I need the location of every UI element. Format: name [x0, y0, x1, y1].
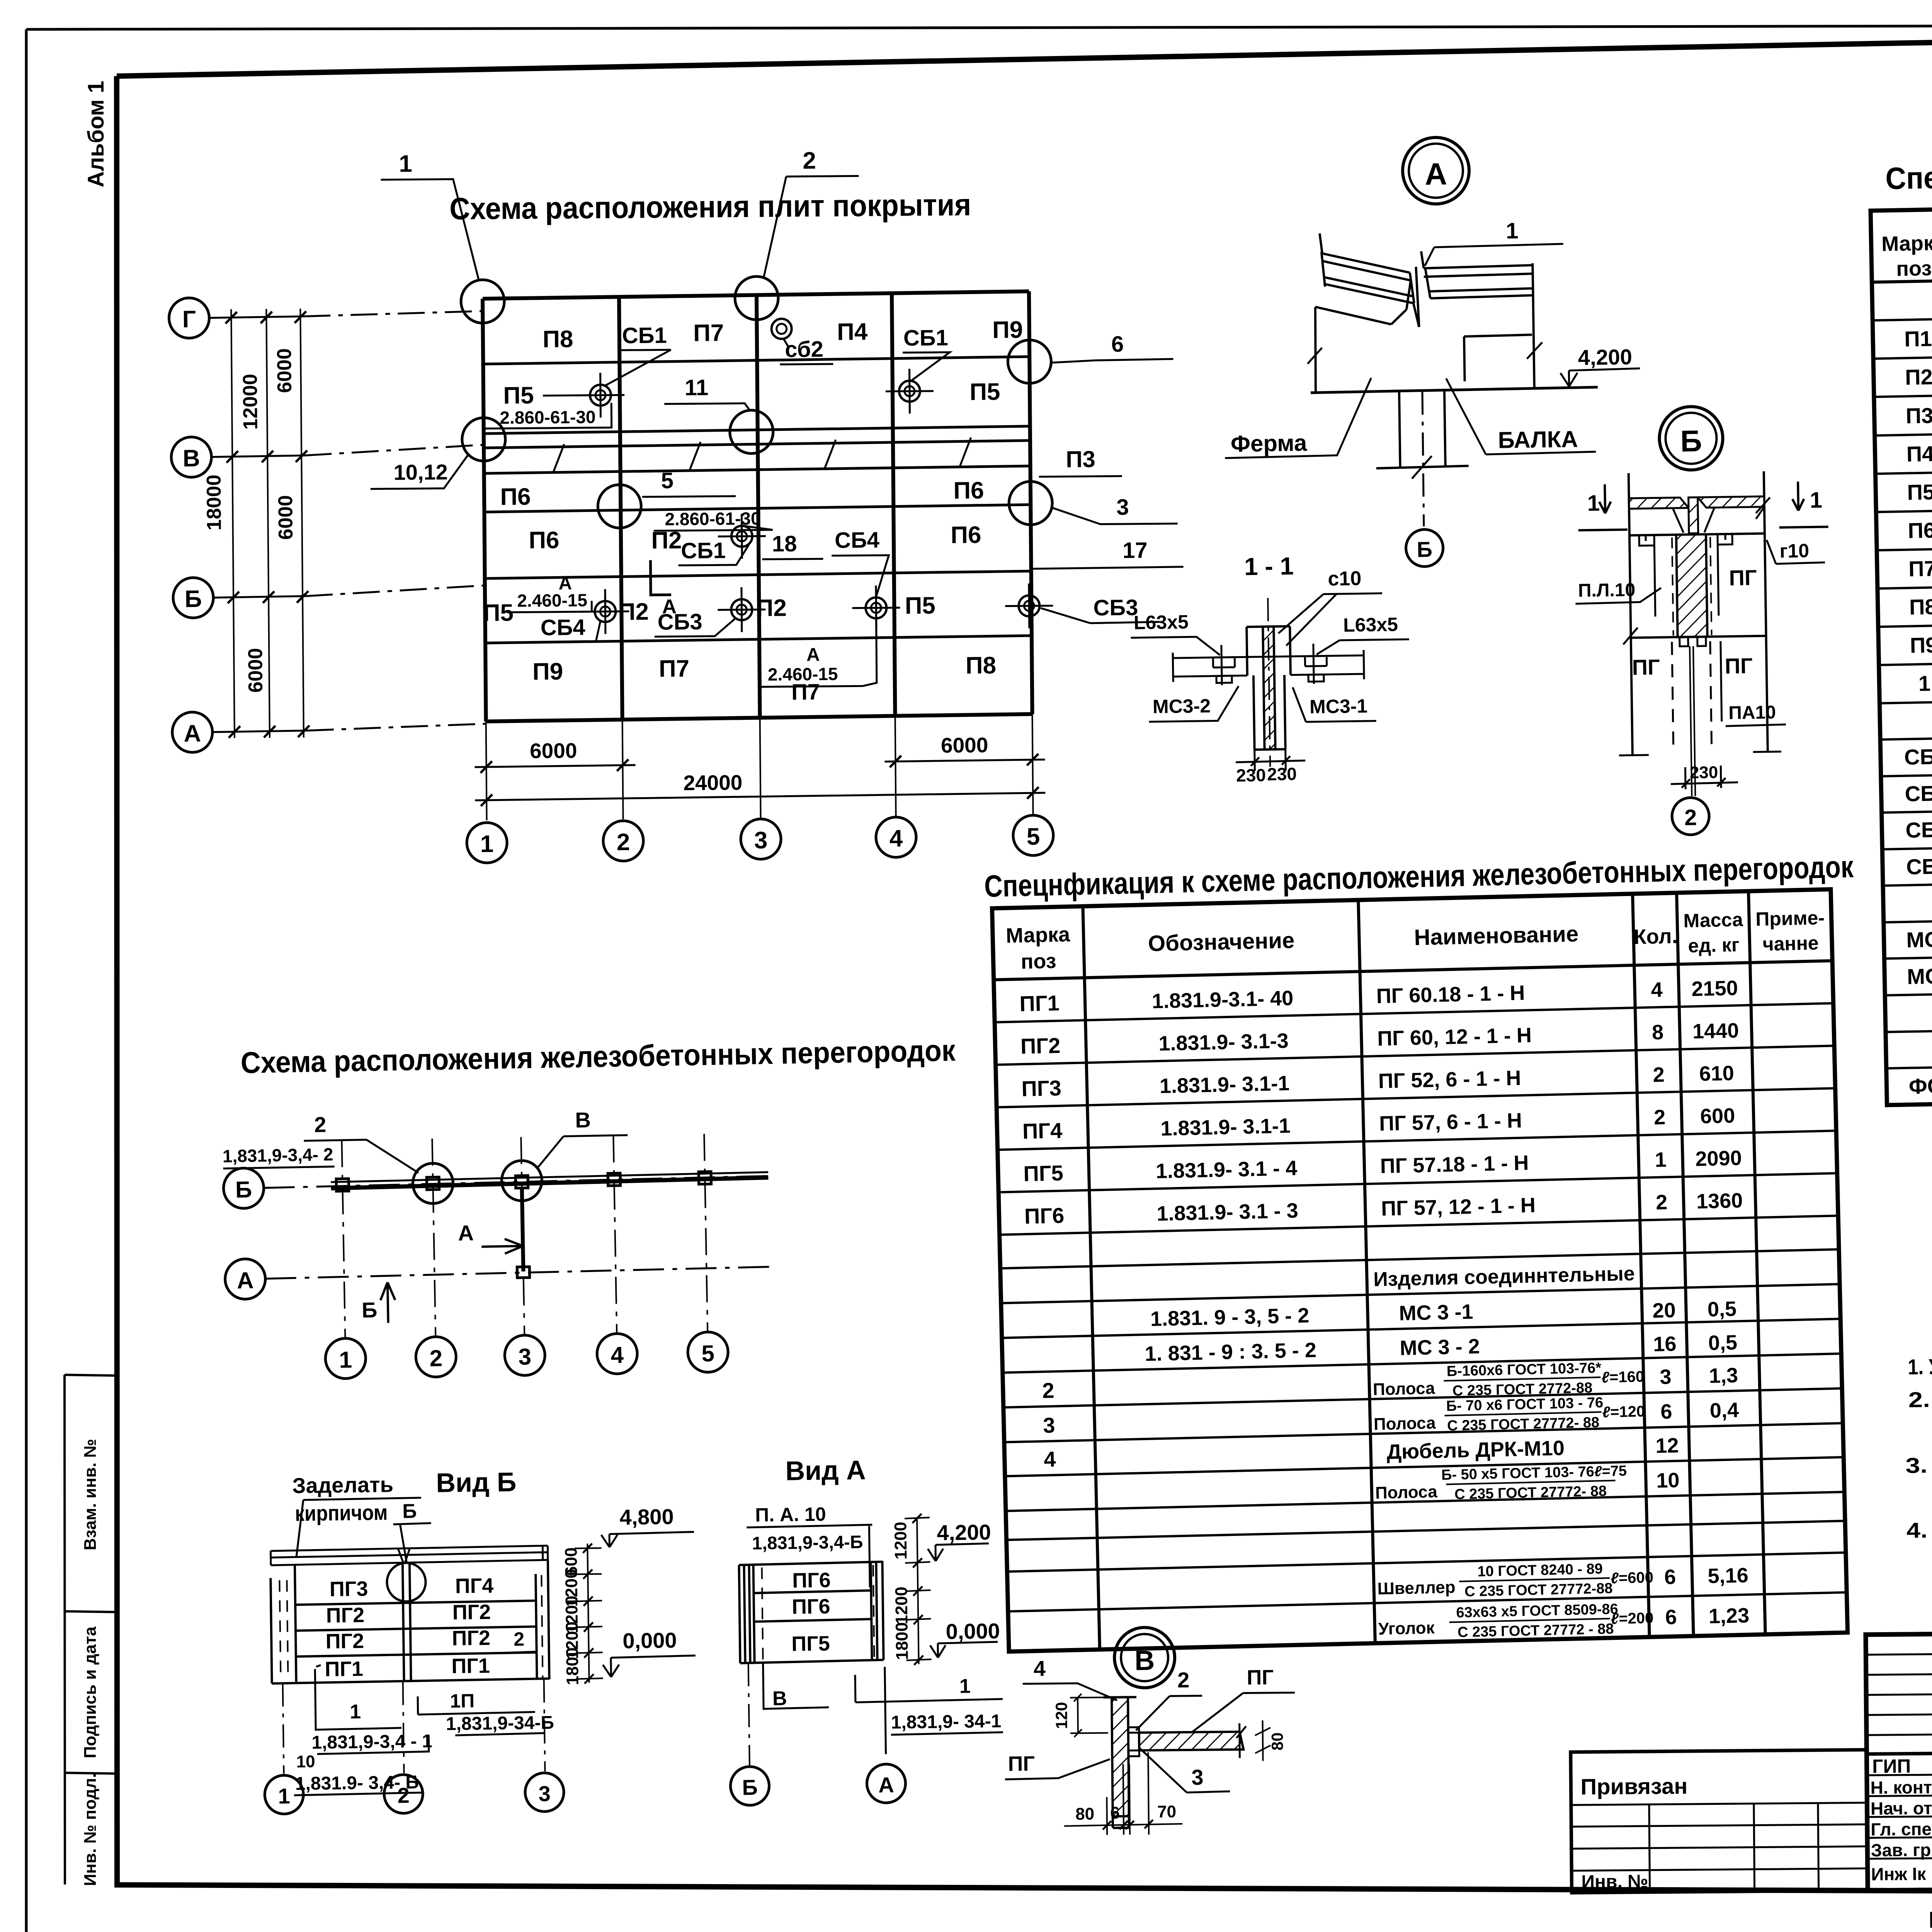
svg-text:11: 11 [685, 375, 709, 400]
svg-text:С 235 ГОСТ 27772-88: С 235 ГОСТ 27772-88 [1464, 1580, 1613, 1600]
partition wall col3 vertical [522, 1188, 524, 1272]
plan2 circle 5 [687, 1332, 728, 1372]
left support [1315, 307, 1316, 392]
section mark A center [650, 560, 671, 595]
svg-text:П9: П9 [992, 316, 1023, 344]
svg-text:3: 3 [1116, 495, 1129, 520]
svg-text:ПГ: ПГ [1008, 1752, 1035, 1776]
svg-text:4: 4 [1034, 1656, 1046, 1680]
svg-text:Б: Б [185, 586, 202, 612]
column break slash [1412, 456, 1432, 479]
column circle 3 [741, 819, 781, 859]
svg-text:ℓ=160: ℓ=160 [1601, 1368, 1645, 1386]
circle 2 ref [1672, 798, 1709, 835]
svg-text:П5: П5 [905, 592, 936, 619]
svg-text:20: 20 [1652, 1299, 1676, 1322]
svg-text:6000: 6000 [941, 733, 988, 757]
svg-text:Б: Б [1417, 537, 1432, 562]
svg-text:2: 2 [1042, 1378, 1055, 1403]
svg-text:ПГ: ПГ [1729, 565, 1757, 590]
left hook [1639, 535, 1655, 617]
svg-text:МС 3 - 2: МС 3 - 2 [1400, 1335, 1480, 1360]
svg-text:П7: П7 [693, 320, 724, 347]
svg-text:ПА10: ПА10 [1728, 702, 1776, 723]
NODEB [1573, 405, 1832, 836]
vidB right dim line [587, 1544, 589, 1683]
svg-text:3: 3 [538, 1781, 551, 1806]
VIDA [726, 1453, 1004, 1806]
svg-text:70: 70 [1157, 1802, 1176, 1821]
axis line V [211, 456, 304, 457]
table2 verticals [1083, 891, 1765, 1650]
svg-text:ℓ=600: ℓ=600 [1611, 1569, 1654, 1587]
svg-text:П5: П5 [503, 382, 534, 409]
grid columns [483, 291, 1032, 721]
right hook [1718, 534, 1733, 616]
svg-text:СБ3: СБ3 [657, 609, 702, 635]
washer P5 row right [886, 369, 934, 414]
svg-text:0,5: 0,5 [1708, 1331, 1737, 1355]
marker circle col3 top [735, 276, 779, 320]
dim 230 bottom [1670, 765, 1738, 789]
svg-text:П5: П5 [1907, 480, 1932, 504]
svg-text:0,000: 0,000 [622, 1628, 677, 1653]
svg-text:кирпичом: кирпичом [295, 1500, 388, 1526]
NODEV [1004, 1626, 1296, 1836]
svg-text:ПГ5: ПГ5 [791, 1632, 830, 1655]
post dashed lines [1672, 537, 1712, 636]
plan2 circle 1 [325, 1338, 366, 1379]
washer P5 row left [577, 372, 625, 418]
svg-text:П9: П9 [532, 658, 563, 685]
titleblock outer [1866, 1628, 1932, 1891]
svg-text:ПГ4: ПГ4 [1022, 1118, 1063, 1143]
svg-text:Н. контр.: Н. контр. [1870, 1777, 1932, 1798]
svg-text:2: 2 [617, 829, 630, 855]
svg-text:3: 3 [1191, 1765, 1204, 1789]
washer B row 2 [718, 587, 766, 632]
svg-text:Б: Б [1680, 424, 1702, 458]
svg-text:В: В [1134, 1645, 1155, 1676]
svg-text:1200: 1200 [892, 1587, 911, 1624]
svg-text:5: 5 [1027, 823, 1040, 850]
svg-text:120: 120 [1052, 1702, 1071, 1729]
svg-text:П2: П2 [618, 599, 649, 626]
svg-text:L63x5: L63x5 [1343, 614, 1398, 636]
svg-text:А: А [458, 1221, 474, 1245]
svg-text:1,831,9-3,4- 2: 1,831,9-3,4- 2 [222, 1144, 333, 1166]
table1 outer box [1871, 195, 1932, 1105]
svg-text:А: А [184, 720, 201, 747]
svg-text:П4: П4 [837, 318, 868, 345]
VIDB [261, 1464, 697, 1815]
svg-text:П7: П7 [1908, 556, 1932, 581]
table2 outer box [992, 889, 1847, 1651]
svg-text:ПГ 52, 6 - 1 - Н: ПГ 52, 6 - 1 - Н [1378, 1066, 1521, 1093]
svg-text:2.460-15: 2.460-15 [517, 590, 587, 611]
svg-text:Гл. спец: Гл. спец [1871, 1819, 1932, 1839]
svg-text:Вид Б: Вид Б [436, 1467, 517, 1498]
svg-text:10 ГОСТ 8240 - 89: 10 ГОСТ 8240 - 89 [1477, 1561, 1603, 1580]
svg-text:С 235 ГОСТ 27772- 88: С 235 ГОСТ 27772- 88 [1454, 1483, 1607, 1503]
svg-text:4,200: 4,200 [1578, 345, 1632, 370]
svg-text:СБ2: СБ2 [1905, 781, 1932, 806]
svg-text:230: 230 [1690, 763, 1718, 782]
svg-text:П7: П7 [791, 679, 820, 705]
svg-text:ПГ: ПГ [1632, 655, 1660, 679]
svg-text:1: 1 [1918, 671, 1930, 696]
funnel walls [1673, 507, 1715, 533]
svg-text:1,831,9-3,4-Б: 1,831,9-3,4-Б [752, 1531, 863, 1553]
left break mark [1623, 628, 1638, 645]
svg-text:4: 4 [1044, 1447, 1056, 1471]
column circle 5 [1013, 815, 1054, 856]
svg-text:24000: 24000 [683, 770, 742, 795]
axis circle A [172, 712, 213, 753]
dim line 6000 right [884, 760, 1045, 762]
svg-text:4,800: 4,800 [619, 1504, 674, 1529]
svg-text:г10: г10 [1779, 540, 1809, 562]
svg-text:1200: 1200 [891, 1522, 910, 1560]
table1 header line [1872, 267, 1932, 282]
bolt left [1213, 645, 1235, 685]
upper grid rows [1866, 1652, 1932, 1735]
svg-text:А: А [806, 645, 820, 665]
stakan top block [1247, 626, 1290, 657]
svg-text:ℓ=200: ℓ=200 [1611, 1609, 1654, 1628]
svg-text:5,16: 5,16 [1708, 1564, 1748, 1588]
svg-text:П4: П4 [1906, 441, 1932, 466]
axis circle B [173, 578, 214, 618]
plan2 circle 2 [415, 1337, 456, 1378]
svg-text:СБ4: СБ4 [541, 615, 585, 640]
svg-text:Обозначение: Обозначение [1148, 928, 1295, 956]
center axis [1268, 598, 1270, 767]
lower center pair [1690, 646, 1695, 796]
right break mark [1527, 342, 1543, 359]
svg-text:6000: 6000 [274, 495, 297, 540]
outer border top [26, 25, 1932, 29]
svg-text:В: В [772, 1687, 787, 1710]
svg-text:4,200: 4,200 [937, 1520, 991, 1545]
svg-text:ПГ 60.18 - 1 - Н: ПГ 60.18 - 1 - Н [1376, 981, 1525, 1008]
svg-text:0,4: 0,4 [1709, 1398, 1739, 1422]
svg-text:чанне: чанне [1762, 932, 1819, 955]
svg-text:ПГ2: ПГ2 [326, 1604, 364, 1627]
svg-text:ПГ1: ПГ1 [1019, 991, 1060, 1016]
svg-text:2: 2 [1653, 1063, 1665, 1087]
washer P2 mid [718, 514, 766, 559]
svg-text:2.860-61-30: 2.860-61-30 [500, 407, 595, 428]
dim 230 230 [1236, 749, 1306, 771]
TABLE2 [984, 849, 1871, 1652]
dim line 24000 [475, 793, 1045, 801]
dims bottom 80 6 70 [1063, 1752, 1182, 1835]
left stamp column boxes [65, 1375, 116, 1884]
svg-text:1440: 1440 [1692, 1019, 1739, 1043]
svg-text:2: 2 [429, 1345, 443, 1371]
marker circle 11 [730, 410, 773, 454]
svg-text:18: 18 [772, 531, 797, 557]
outer border bottom [26, 1886, 1932, 1932]
svg-text:8: 8 [1652, 1020, 1664, 1044]
svg-text:П2: П2 [651, 527, 682, 554]
svg-text:П3: П3 [1905, 403, 1932, 428]
svg-text:П2: П2 [1905, 364, 1932, 389]
svg-text:ПГ6: ПГ6 [792, 1568, 831, 1592]
svg-text:0,000: 0,000 [946, 1619, 1000, 1644]
dim 80 right [1255, 1720, 1271, 1761]
svg-text:СБ4: СБ4 [835, 527, 879, 553]
svg-text:4: 4 [889, 825, 903, 852]
stakan walls below [1247, 656, 1291, 750]
svg-text:поз: поз [1020, 949, 1056, 973]
svg-text:2: 2 [1656, 1190, 1668, 1214]
plan2 circle 3 [504, 1335, 545, 1376]
svg-text:1: 1 [399, 151, 412, 177]
svg-text:1: 1 [480, 831, 494, 857]
svg-text:6000: 6000 [530, 738, 577, 763]
dim ticks left [225, 311, 310, 738]
svg-text:Б: Б [402, 1500, 417, 1522]
outer border left [25, 29, 28, 1932]
right slab package horizontal [1421, 250, 1534, 389]
svg-text:МС3-2: МС3-2 [1153, 695, 1211, 718]
svg-text:П.Л.10: П.Л.10 [1578, 580, 1636, 601]
svg-text:СБ1: СБ1 [903, 325, 948, 351]
dim 120 left [1070, 1694, 1108, 1737]
svg-text:ПГ 57, 6 - 1 - Н: ПГ 57, 6 - 1 - Н [1379, 1109, 1522, 1135]
full width line under upper band [1867, 1748, 1932, 1754]
svg-text:1800: 1800 [892, 1622, 912, 1660]
svg-text:12: 12 [1655, 1434, 1679, 1458]
column axis dashdot [1422, 391, 1424, 526]
slab body band [1629, 534, 1765, 536]
svg-text:Швеллер: Швеллер [1377, 1578, 1456, 1599]
axis circle A2 [225, 1259, 266, 1299]
svg-text:2: 2 [803, 147, 816, 174]
svg-text:1.831.9- 3.1-1: 1.831.9- 3.1-1 [1160, 1114, 1291, 1140]
washer B row 4 [1005, 583, 1053, 629]
svg-text:4: 4 [611, 1342, 624, 1368]
svg-text:Кол.: Кол. [1633, 925, 1678, 949]
bolt right [1305, 643, 1327, 684]
svg-text:12000: 12000 [239, 374, 262, 430]
svg-text:П9: П9 [1910, 633, 1932, 657]
bottom ticks [1619, 752, 1781, 755]
marker circle 5 [598, 485, 641, 528]
svg-text:1,23: 1,23 [1708, 1604, 1749, 1628]
svg-text:2090: 2090 [1695, 1146, 1742, 1171]
svg-text:Зав. гр.: Зав. гр. [1871, 1840, 1932, 1860]
column below [1375, 390, 1469, 468]
TITLEBLOCK [1570, 1628, 1932, 1932]
svg-text:Масса: Масса [1683, 909, 1744, 932]
table2 header line [994, 961, 1832, 980]
column circle 1 [467, 823, 507, 863]
svg-text:Привязан: Привязан [1580, 1774, 1687, 1799]
svg-text:6000: 6000 [273, 348, 296, 393]
svg-text:Взам. инв. №: Взам. инв. № [81, 1439, 100, 1551]
svg-text:ед. кг: ед. кг [1688, 934, 1740, 957]
feet under post [1680, 637, 1706, 646]
svg-text:230: 230 [1236, 765, 1266, 786]
svg-text:А: А [236, 1267, 254, 1294]
wall hatched vertical [1112, 1697, 1129, 1816]
svg-text:СБ1: СБ1 [622, 323, 667, 348]
NOTES [1904, 1343, 1932, 1543]
lower dashed panel lines [1672, 641, 1712, 750]
axis line A [213, 731, 307, 732]
svg-text:СБ3: СБ3 [1905, 817, 1932, 842]
svg-text:ПГ2: ПГ2 [452, 1600, 491, 1624]
svg-text:610: 610 [1699, 1061, 1734, 1085]
vidA right dim line [917, 1519, 919, 1664]
svg-text:3: 3 [1043, 1413, 1056, 1437]
vidB bottom circles [283, 1679, 545, 1774]
svg-text:1.831.9- 3.1 - 3: 1.831.9- 3.1 - 3 [1156, 1199, 1299, 1225]
svg-text:2: 2 [1684, 805, 1697, 830]
svg-text:СБ1: СБ1 [681, 538, 726, 563]
table2 row lines [995, 1003, 1847, 1611]
vidB node ring [387, 1563, 426, 1602]
dim verticals left [231, 309, 304, 738]
slab hatched horizontal [1139, 1732, 1243, 1750]
svg-text:Приме-: Приме- [1755, 907, 1825, 930]
slab line [1173, 650, 1364, 682]
svg-text:Полоса: Полоса [1375, 1482, 1438, 1503]
washer B row 1 [581, 589, 629, 634]
svg-text:5: 5 [661, 468, 674, 493]
svg-text:230: 230 [1267, 764, 1297, 784]
washer B row 3 [852, 585, 900, 631]
svg-text:2150: 2150 [1691, 976, 1738, 1001]
svg-text:сб2: сб2 [785, 337, 823, 362]
privyazan block [1571, 1750, 1868, 1893]
vidB roof plate [270, 1546, 548, 1565]
svg-text:10,12: 10,12 [393, 460, 448, 485]
grid rows [483, 291, 1029, 299]
truss top chord left [1315, 281, 1412, 325]
center post hatched [1676, 534, 1708, 637]
marker circle 6 [1008, 340, 1051, 384]
node circle V [1114, 1627, 1175, 1688]
svg-text:Дюбель ДРК-М10: Дюбель ДРК-М10 [1386, 1436, 1565, 1463]
svg-text:Б: Б [742, 1775, 758, 1799]
svg-text:1П: 1П [450, 1690, 474, 1712]
svg-text:18000: 18000 [203, 474, 226, 531]
svg-text:В: В [575, 1107, 591, 1132]
svg-text:П8: П8 [543, 326, 573, 353]
svg-text:80: 80 [1075, 1804, 1094, 1823]
svg-text:1: 1 [1587, 491, 1600, 516]
svg-text:2: 2 [314, 1112, 327, 1137]
marker circle 3 [1009, 481, 1053, 525]
svg-text:Ферма: Ферма [1230, 430, 1307, 457]
svg-text:Альбом 1: Альбом 1 [83, 81, 109, 187]
plate joint notch [398, 1548, 410, 1563]
column circle 4 [876, 817, 917, 857]
svg-text:ПГ: ПГ [1247, 1666, 1274, 1689]
beam hook [1464, 335, 1533, 381]
wall posts squares [336, 1172, 711, 1191]
svg-text:Марка: Марка [1006, 923, 1071, 947]
svg-text:1: 1 [350, 1701, 361, 1723]
node circle A [1402, 137, 1469, 204]
left roof slab package sloped [1320, 232, 1413, 304]
marker circleV col3 [501, 1160, 542, 1201]
svg-text:В: В [183, 445, 200, 472]
svg-text:1360: 1360 [1696, 1189, 1743, 1213]
svg-text:1: 1 [339, 1347, 352, 1373]
svg-text:П3: П3 [1066, 446, 1095, 473]
svg-text:П8: П8 [1909, 594, 1932, 619]
svg-text:1.831.9-3.1- 40: 1.831.9-3.1- 40 [1151, 986, 1294, 1013]
svg-text:1: 1 [1810, 488, 1822, 513]
svg-text:6: 6 [1665, 1605, 1677, 1629]
svg-text:П1: П1 [1904, 326, 1932, 351]
axis line G [209, 316, 303, 318]
svg-text:3: 3 [754, 827, 768, 854]
svg-text:П5: П5 [483, 599, 514, 626]
column circle 2 [603, 821, 644, 861]
signature rows [1867, 1770, 1932, 1859]
svg-text:ПГ2: ПГ2 [452, 1626, 490, 1650]
svg-text:5: 5 [701, 1340, 715, 1367]
svg-text:1.831.9- 3.1 - 4: 1.831.9- 3.1 - 4 [1155, 1156, 1298, 1183]
svg-text:6: 6 [1660, 1400, 1672, 1423]
svg-text:0,5: 0,5 [1707, 1297, 1736, 1321]
svg-text:ПГ4: ПГ4 [455, 1574, 494, 1598]
svg-text:Г: Г [182, 306, 196, 333]
svg-text:с10: с10 [1328, 567, 1362, 590]
svg-text:Схема расположения плит покрыт: Схема расположения плит покрытия [449, 187, 971, 226]
svg-text:А: А [878, 1772, 894, 1797]
svg-text:поз.: поз. [1896, 257, 1932, 281]
svg-text:1: 1 [959, 1675, 971, 1697]
outer walls [1629, 471, 1768, 755]
svg-text:П6: П6 [1908, 518, 1932, 543]
svg-text:П6: П6 [529, 527, 560, 554]
roof screed hatched strip right [1698, 497, 1764, 508]
svg-text:17: 17 [1122, 538, 1148, 563]
svg-text:4: 4 [1651, 978, 1663, 1002]
svg-text:ПГ6: ПГ6 [1024, 1203, 1065, 1228]
svg-text:Инв. №: Инв. № [1581, 1871, 1648, 1892]
svg-text:80: 80 [1268, 1732, 1286, 1750]
axis circle V [171, 437, 212, 478]
svg-text:Полоса: Полоса [1373, 1413, 1436, 1434]
svg-text:ПГ 60, 12 - 1 - Н: ПГ 60, 12 - 1 - Н [1377, 1024, 1532, 1050]
slab right break [1756, 497, 1770, 519]
svg-text:L63x5: L63x5 [1134, 611, 1189, 633]
marker circle col1 top [461, 280, 505, 323]
svg-text:А: А [1425, 156, 1447, 191]
svg-text:СБ3: СБ3 [1093, 595, 1138, 621]
svg-text:1 - 1: 1 - 1 [1244, 552, 1294, 581]
ridge wall [1410, 267, 1419, 327]
svg-text:2: 2 [397, 1783, 410, 1808]
marker circle V-col1 [462, 418, 505, 461]
svg-text:Б: Б [235, 1177, 252, 1203]
bottom level line [1311, 387, 1598, 393]
svg-text:ПГ 57.18 - 1 - Н: ПГ 57.18 - 1 - Н [1380, 1151, 1529, 1178]
svg-text:ℓ=120: ℓ=120 [1602, 1403, 1645, 1421]
svg-text:ПГ2: ПГ2 [325, 1629, 364, 1653]
svg-text:ПГ2: ПГ2 [1020, 1033, 1061, 1058]
axis circle G [169, 298, 209, 338]
svg-text:Полоса: Полоса [1372, 1379, 1435, 1399]
